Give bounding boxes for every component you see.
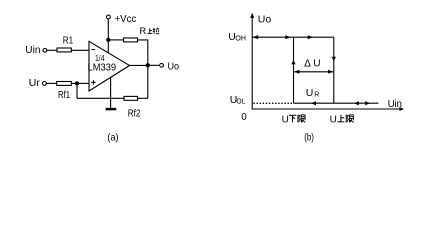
svg-text:OH: OH <box>235 36 246 43</box>
wire node O to Uo terminal <box>148 64 160 66</box>
resistor R pull-up <box>124 38 138 42</box>
svg-text:U: U <box>330 114 337 125</box>
wire Rf1 to node B <box>71 82 77 84</box>
wire R1 to op-amp inverting input <box>71 49 89 51</box>
arrowhead right before U下限 on UOH line <box>285 35 290 39</box>
svg-text:OL: OL <box>236 99 245 106</box>
wire corner to Rf2 <box>138 97 148 99</box>
svg-text:R: R <box>140 26 147 36</box>
glyph 上 (of 上拉) <box>147 28 152 33</box>
svg-text:0: 0 <box>241 112 247 123</box>
glyph 限 (of U下限) <box>298 115 305 123</box>
line U下限 vertical <box>293 37 295 103</box>
op-amp U1 1/4 LM339 triangle <box>89 41 130 91</box>
arrowhead right on lower line right pair <box>365 101 370 105</box>
node Uo terminal circle <box>160 63 164 67</box>
svg-text:Uin: Uin <box>25 45 40 56</box>
svg-text:(b): (b) <box>304 133 314 144</box>
pin + (non-inverting input marker) <box>91 80 95 85</box>
node V junction dot (Vcc rail node) <box>106 38 110 42</box>
arrowhead right of ΔU dimension <box>328 70 333 74</box>
wire node V to op-amp V+ pin <box>107 40 109 53</box>
wire node B to op-amp non-inverting input <box>77 82 89 84</box>
wire +Vcc down to node V <box>107 19 109 40</box>
svg-text:R: R <box>314 92 319 99</box>
svg-text:1/4: 1/4 <box>95 54 105 63</box>
svg-text:Uo: Uo <box>168 62 180 73</box>
wire pull-up resistor to corner <box>138 40 148 65</box>
glyph 限 (of U上限) <box>346 115 353 123</box>
y-axis Uo <box>251 14 253 110</box>
y-axis arrowhead <box>250 13 254 18</box>
dotted line UOL level <box>253 102 293 104</box>
resistor R1 <box>57 48 71 52</box>
svg-text:U: U <box>282 114 289 125</box>
arrowhead down on U上限 vertical <box>332 57 336 62</box>
node Ur terminal circle <box>43 82 47 86</box>
svg-text:(a): (a) <box>107 133 118 144</box>
svg-text:Uin: Uin <box>388 99 402 110</box>
svg-text:Δ U: Δ U <box>304 58 320 69</box>
wire op-amp output to node O <box>129 64 148 66</box>
svg-text:Rf2: Rf2 <box>128 108 141 119</box>
wire node V to pull-up resistor <box>108 39 123 41</box>
dimension line ΔU <box>294 71 333 73</box>
arrowhead left at axis on UOH line <box>253 35 259 39</box>
arrowhead left of ΔU dimension <box>294 70 299 74</box>
svg-text:+Vcc: +Vcc <box>115 13 137 25</box>
node Uin terminal circle <box>43 48 47 52</box>
x-axis arrowhead <box>399 107 404 111</box>
arrowhead left on lower line near UR <box>311 101 316 105</box>
glyph 上 (of U上限) <box>338 115 345 122</box>
arrowhead up on U下限 vertical <box>291 60 295 65</box>
power +Vcc terminal circle <box>107 15 111 19</box>
glyph 拉 (of 上拉) <box>153 28 160 34</box>
wire node O down (feedback) <box>147 65 149 98</box>
arrowhead right mid on UOH line <box>308 35 313 39</box>
node O junction dot (output node) <box>146 63 150 67</box>
wire Rf2 to feedback corner left <box>77 97 124 99</box>
wire Ur to Rf1 <box>46 82 56 84</box>
line UOH level <box>252 36 334 38</box>
svg-text:LM339: LM339 <box>88 63 117 74</box>
line U上限 vertical <box>333 37 335 103</box>
wire feedback up to node B <box>76 83 78 98</box>
node B junction dot (non-inverting input node) <box>75 81 79 85</box>
svg-text:Uo: Uo <box>258 14 272 26</box>
glyph 下 (of U下限) <box>289 115 296 122</box>
arrowhead left on lower line right pair <box>354 101 359 105</box>
svg-text:R1: R1 <box>63 36 74 47</box>
x-axis Uin <box>252 108 401 110</box>
wire op-amp ground pin <box>110 77 112 108</box>
ground <box>106 108 117 111</box>
svg-text:U: U <box>306 87 314 99</box>
pin - (inverting input marker) <box>92 49 96 51</box>
svg-text:Ur: Ur <box>29 78 41 89</box>
wire Uin to R1 <box>47 49 57 51</box>
line UOL solid level <box>294 102 379 104</box>
resistor Rf1 <box>57 82 72 86</box>
resistor Rf2 <box>124 96 138 100</box>
svg-text:Rf1: Rf1 <box>58 90 70 101</box>
